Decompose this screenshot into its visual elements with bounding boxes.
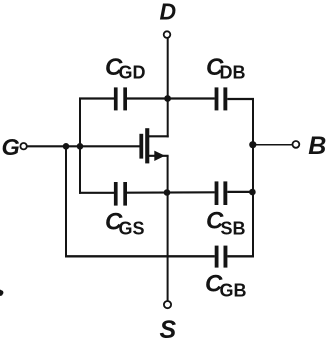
svg-text:GD: GD: [119, 63, 146, 83]
svg-text:SB: SB: [221, 219, 246, 239]
svg-text:GB: GB: [220, 281, 247, 301]
svg-text:DB: DB: [220, 63, 246, 83]
svg-text:G: G: [2, 134, 20, 160]
svg-text:B: B: [308, 132, 326, 160]
svg-text:D: D: [160, 0, 177, 25]
svg-text:S: S: [160, 316, 177, 341]
svg-text:GS: GS: [119, 219, 145, 239]
